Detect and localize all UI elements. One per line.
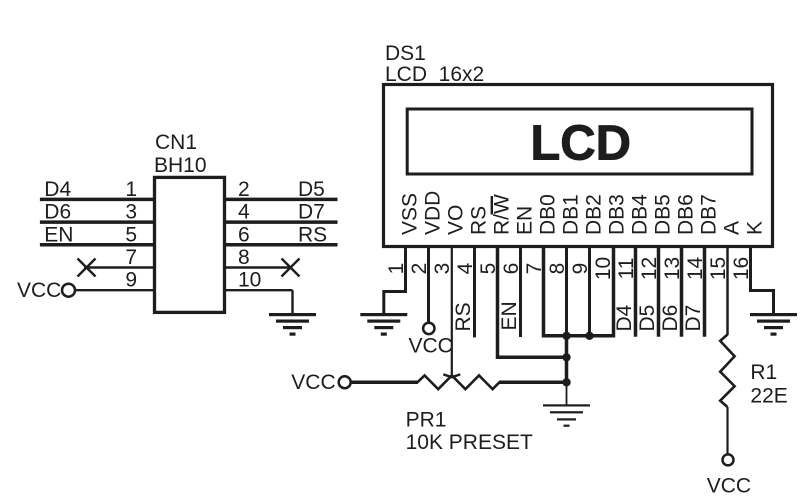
svg-text:DB3: DB3 (606, 194, 629, 235)
svg-text:VDD: VDD (422, 191, 445, 235)
svg-text:22E: 22E (750, 385, 787, 408)
svg-text:D7: D7 (682, 305, 705, 332)
svg-text:D6: D6 (659, 305, 682, 332)
svg-text:D6: D6 (44, 201, 71, 224)
svg-text:PR1: PR1 (406, 408, 447, 431)
svg-text:RS: RS (298, 223, 327, 246)
svg-text:7: 7 (125, 246, 137, 269)
svg-text:D5: D5 (298, 178, 325, 201)
svg-text:DB6: DB6 (675, 194, 698, 235)
svg-text:LCD 16x2: LCD 16x2 (385, 63, 484, 86)
svg-text:CN1: CN1 (155, 131, 197, 154)
svg-text:2: 2 (238, 178, 250, 201)
svg-text:4: 4 (238, 201, 250, 224)
svg-text:9: 9 (125, 269, 137, 292)
svg-text:DB1: DB1 (560, 194, 583, 235)
svg-text:VCC: VCC (409, 335, 453, 358)
svg-text:EN: EN (44, 223, 73, 246)
svg-text:RS: RS (452, 302, 475, 331)
svg-text:VSS: VSS (399, 193, 422, 235)
svg-text:10K PRESET: 10K PRESET (406, 431, 533, 454)
svg-text:5: 5 (125, 223, 137, 246)
svg-text:A: A (721, 221, 744, 235)
svg-text:RS: RS (468, 206, 491, 235)
svg-text:VCC: VCC (291, 371, 335, 394)
svg-text:D4: D4 (613, 304, 636, 331)
svg-text:10: 10 (238, 269, 261, 292)
svg-text:DB7: DB7 (698, 194, 721, 235)
svg-text:DB0: DB0 (537, 194, 560, 235)
svg-text:VCC: VCC (17, 279, 61, 302)
svg-text:DB4: DB4 (629, 194, 652, 235)
svg-text:DB2: DB2 (583, 194, 606, 235)
svg-text:R/W: R/W (491, 194, 514, 235)
svg-text:D7: D7 (298, 201, 325, 224)
svg-text:BH10: BH10 (154, 154, 207, 177)
svg-text:VCC: VCC (707, 475, 751, 497)
svg-text:LCD: LCD (530, 116, 631, 170)
svg-text:D5: D5 (636, 305, 659, 332)
svg-text:8: 8 (238, 246, 250, 269)
svg-text:6: 6 (238, 223, 250, 246)
svg-text:1: 1 (125, 178, 137, 201)
svg-text:R1: R1 (750, 361, 777, 384)
svg-text:VO: VO (445, 205, 468, 235)
svg-text:EN: EN (498, 301, 521, 330)
svg-text:3: 3 (125, 201, 137, 224)
svg-text:DB5: DB5 (652, 194, 675, 235)
svg-text:D4: D4 (44, 178, 71, 201)
svg-text:K: K (744, 221, 767, 235)
svg-text:EN: EN (514, 206, 537, 235)
svg-text:DS1: DS1 (385, 42, 426, 65)
